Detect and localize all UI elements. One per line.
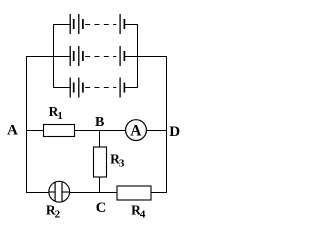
battery row1 cell3 short plate [123,19,125,29]
ammeter U1 circle [126,120,147,141]
resistor R3 [94,147,107,177]
battery row2 cell2 long plate [78,46,80,66]
battery row3 cell1 short plate [73,83,75,93]
battery row1 cell3 long plate [119,14,121,34]
lamp R2 left stub wire [49,191,55,193]
svg-text:A: A [130,123,142,140]
wire battery row3 right lead [124,87,138,89]
wire right outer vertical [166,56,168,193]
resistor R1 [44,125,75,137]
wire row2 dashed continuation [85,56,116,58]
battery row3 cell3 short plate [123,83,125,93]
battery row2 cell3 long plate [119,46,121,66]
battery row3 cell2 long plate [78,78,80,98]
lamp R2 circle [49,181,70,202]
battery row1 cell1 long plate [69,14,71,34]
battery row2 cell1 short plate [73,51,75,61]
lamp R2 right stub wire [62,191,70,193]
battery row1 cell1 short plate [73,19,75,29]
battery row3 cell2 short plate [82,83,84,93]
lamp R2 left plate [54,182,56,201]
svg-text:B: B [95,115,104,130]
resistor R4 [117,186,151,200]
battery row2 cell2 short plate [82,51,84,61]
battery row3 cell3 long plate [119,78,121,98]
battery row2 cell3 short plate [123,51,125,61]
wire row1 dashed continuation [85,24,116,26]
battery row1 cell2 long plate [78,14,80,34]
wire battery row2 right lead [124,56,167,58]
wire battery row3 left lead [53,87,70,89]
battery row1 cell2 short plate [82,19,84,29]
wire battery row2 left lead [26,56,70,58]
wire battery row1 left lead [53,24,70,26]
svg-text:D: D [169,124,180,140]
wire main middle horizontal A-B-D [26,130,167,132]
wire branch B to C [99,130,101,193]
wire left outer vertical [26,56,28,193]
wire right battery bus [137,24,139,88]
lamp R2 right plate [61,182,63,201]
wire left battery bus [53,24,55,88]
wire battery row1 right lead [124,24,138,26]
wire bottom horizontal [26,192,167,194]
svg-text:C: C [96,200,106,216]
wire row3 dashed continuation [85,87,116,89]
svg-text:A: A [7,123,18,139]
battery row2 cell1 long plate [69,46,71,66]
battery row3 cell1 long plate [69,78,71,98]
